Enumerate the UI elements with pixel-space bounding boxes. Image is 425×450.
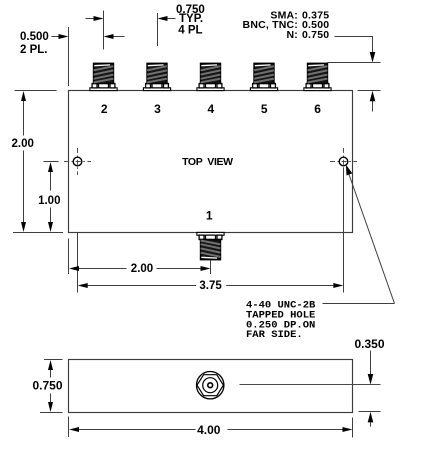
svg-text:4 PL: 4 PL (178, 24, 202, 36)
extension line port 2 center (103, 11, 105, 50)
dim 0.500 arrows (52, 34, 125, 39)
svg-text:4: 4 (208, 102, 215, 116)
port 1 connector (197, 232, 224, 259)
leader to tapped hole callout (323, 165, 395, 304)
extension line body left below (68, 239, 70, 275)
extension line body top right (358, 90, 381, 92)
svg-text:1.00: 1.00 (38, 195, 60, 207)
svg-text:2 PL.: 2 PL. (20, 44, 47, 56)
leader from 0.750 down arrow (335, 37, 376, 63)
port 1 connector face (197, 372, 224, 399)
connector 4 (197, 63, 224, 90)
svg-text:N:: N: (287, 29, 298, 41)
extension line connector 6 top (328, 62, 381, 64)
tapped hole left (64, 148, 91, 175)
svg-text:FAR SIDE.: FAR SIDE. (246, 329, 303, 341)
svg-text:0.350: 0.350 (355, 337, 385, 351)
dim text 0.750 TYP. 4 PL (176, 4, 205, 37)
dim 0.750 arrows (86, 16, 176, 21)
svg-text:0.500: 0.500 (20, 31, 49, 43)
extension line port 1 center below (210, 261, 212, 275)
dim 4.00 horizontal side view (69, 417, 353, 438)
extension line body left edge top (68, 27, 70, 86)
svg-text:5: 5 (261, 102, 268, 116)
svg-text:0.750: 0.750 (302, 29, 329, 41)
up arrow to body top edge (370, 91, 376, 112)
dim 3.75 horizontal (78, 280, 344, 292)
svg-text:TOP VIEW: TOP VIEW (182, 156, 233, 168)
svg-text:2.00: 2.00 (12, 138, 34, 150)
tapped hole right (330, 148, 357, 175)
svg-text:4.00: 4.00 (197, 423, 221, 437)
svg-text:0.750: 0.750 (33, 378, 63, 392)
connector 2 (90, 63, 117, 90)
connector height table SMA BNC N (243, 9, 330, 41)
side view body outline (69, 360, 353, 413)
connector centerline right (240, 384, 381, 386)
extension line port 3 center (157, 13, 159, 46)
extension line left hole below (77, 233, 79, 293)
callout text 4-40 UNC-2B (246, 300, 316, 342)
svg-text:1: 1 (206, 209, 213, 223)
dim text 0.500 2 PL. (20, 31, 49, 56)
svg-text:3.75: 3.75 (199, 280, 222, 292)
svg-text:2.00: 2.00 (131, 263, 153, 275)
dim 0.350 right side view (355, 337, 385, 427)
dim 1.00 vertical (38, 162, 60, 233)
dim 2.00 horizontal (69, 263, 211, 275)
svg-text:3: 3 (154, 102, 161, 116)
extension line right hole below (343, 169, 345, 293)
connector 6 (304, 63, 331, 90)
svg-text:6: 6 (314, 102, 321, 116)
connector 5 (250, 63, 277, 90)
connector 3 (143, 63, 170, 90)
dim 0.750 vertical side view (33, 360, 63, 413)
dim 2.00 vertical (12, 91, 63, 233)
top view body outline (69, 91, 353, 233)
svg-text:2: 2 (101, 102, 108, 116)
svg-text:TYP.: TYP. (179, 13, 203, 25)
